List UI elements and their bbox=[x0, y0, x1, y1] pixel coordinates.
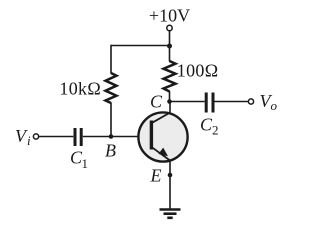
svg-text:Vi: Vi bbox=[15, 126, 31, 148]
wire supply rail to R2 bbox=[169, 46, 171, 62]
wire collector up bbox=[169, 102, 171, 114]
wire Vi to C1 bbox=[39, 136, 74, 138]
wire C2 to Vo bbox=[215, 101, 249, 103]
wire node C to C2 bbox=[170, 101, 205, 103]
svg-text:Vo: Vo bbox=[260, 91, 278, 113]
capacitor C2 bbox=[205, 93, 208, 113]
junction dot top bbox=[167, 44, 172, 49]
ground bbox=[160, 208, 181, 211]
node C junction dot bbox=[167, 99, 172, 104]
transistor emitter stroke bbox=[152, 147, 170, 160]
svg-text:C: C bbox=[150, 92, 163, 112]
svg-text:B: B bbox=[105, 141, 116, 161]
node B junction dot bbox=[109, 134, 114, 139]
transistor emitter arrowhead bbox=[158, 148, 168, 157]
svg-text:1: 1 bbox=[82, 156, 89, 171]
svg-text:E: E bbox=[150, 165, 162, 185]
svg-text:2: 2 bbox=[212, 123, 219, 138]
wire supply to junction bbox=[169, 31, 171, 46]
svg-text:100Ω: 100Ω bbox=[177, 61, 219, 81]
wire left rail upper bbox=[110, 45, 112, 74]
resistor R1 10kOhm bbox=[106, 73, 117, 103]
capacitor C1 bbox=[74, 128, 77, 146]
terminal Vo bbox=[248, 99, 253, 104]
wire left rail lower bbox=[110, 103, 112, 137]
transistor base bar bbox=[150, 121, 153, 150]
transistor collector stroke bbox=[152, 113, 170, 123]
wire emitter down bbox=[169, 160, 171, 210]
resistor R2 100Ohm bbox=[164, 61, 176, 92]
supply terminal bbox=[167, 25, 172, 30]
node E junction dot bbox=[168, 173, 173, 178]
svg-text:+10V: +10V bbox=[149, 6, 190, 26]
svg-text:10kΩ: 10kΩ bbox=[59, 79, 101, 99]
wire R2 to node C bbox=[169, 91, 171, 102]
wire C1 to base bbox=[83, 136, 150, 138]
terminal Vi bbox=[33, 134, 38, 139]
wire top horizontal bbox=[111, 45, 170, 47]
transistor Q1 body bbox=[138, 112, 187, 161]
